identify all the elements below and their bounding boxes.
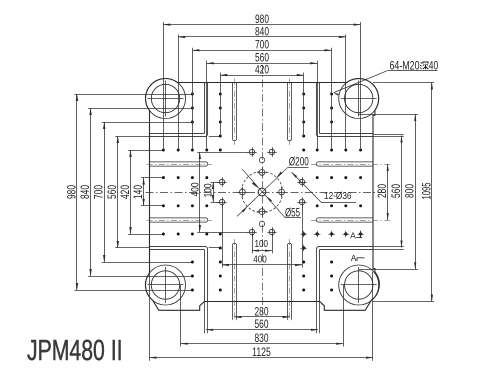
locating hole with cross mark (222,202): [217, 197, 226, 206]
dimension 100 horizontal centre: [252, 235, 273, 253]
callout 64-M20 depth 40: [333, 60, 438, 95]
svg-text:A: A: [350, 231, 356, 241]
svg-text:400: 400: [253, 254, 267, 266]
dimension 980 top: [163, 12, 360, 26]
locating hole with cross mark (272,232): [267, 227, 276, 236]
svg-text:700: 700: [92, 185, 106, 199]
T-slot left upper: [147, 162, 213, 166]
dimension 840 top: [178, 24, 346, 38]
svg-text:Ø200: Ø200: [289, 157, 309, 169]
mold area corner step bottom-right: [316, 246, 373, 301]
dimension 400 vertical centre: [189, 152, 248, 233]
dimension 1095 right: [419, 83, 433, 302]
M20 hole grid bottom-left quadrant: [162, 233, 222, 292]
dimension 800 right: [403, 114, 417, 269]
mold area corner step top-left: [150, 83, 208, 137]
T-slot right upper: [311, 162, 391, 166]
dimension 1125 bottom: [150, 345, 374, 359]
svg-text:560: 560: [389, 184, 403, 198]
tie-bar hole top-right: [339, 79, 379, 119]
mold area corner step top-right: [316, 83, 373, 137]
T-slot bottom right: [287, 239, 291, 321]
dimension 980 left: [64, 94, 78, 290]
dimension 560 top: [207, 51, 317, 65]
label diameter 55: [285, 208, 300, 220]
horizontal centerline: [146, 192, 388, 194]
bolt-circle hole (262,172.4): [257, 167, 267, 177]
M20 hole grid top-left quadrant: [162, 93, 222, 208]
svg-text:400: 400: [189, 183, 201, 197]
svg-text:100: 100: [203, 183, 215, 197]
svg-text:Ø55: Ø55: [285, 208, 300, 220]
svg-text:420: 420: [255, 63, 269, 77]
svg-text:JPM480 II: JPM480 II: [27, 335, 123, 367]
section mark A upper: [350, 231, 362, 241]
centre locating hole diameter 55: [258, 188, 266, 196]
tie-bar hole top-left: [146, 79, 186, 119]
platen plate outline with corner bosses: [145, 78, 379, 310]
leader line for diameter 55: [242, 169, 301, 217]
svg-text:420: 420: [118, 185, 132, 199]
dimension 560 left: [105, 136, 119, 248]
svg-text:1095: 1095: [419, 182, 433, 199]
leader line for diameter 200: [237, 168, 309, 217]
locating hole with cross mark (302,202): [297, 197, 306, 206]
label diameter 200: [289, 157, 309, 169]
T-slot right lower: [311, 218, 391, 222]
locating hole with cross mark (272,152): [267, 147, 276, 156]
T-slot top right: [287, 79, 291, 146]
svg-text:840: 840: [255, 24, 269, 38]
svg-text:140: 140: [131, 185, 145, 199]
svg-text:560: 560: [255, 317, 269, 331]
dimension 700 left: [92, 122, 106, 262]
T-slot left lower: [147, 218, 213, 222]
dimension 830 bottom: [181, 331, 343, 345]
bolt-circle hole (281.6,192): [277, 187, 287, 197]
svg-text:800: 800: [403, 184, 417, 198]
small hole above centre: [259, 157, 264, 162]
svg-text:40: 40: [429, 60, 438, 72]
svg-text:64-M20: 64-M20: [390, 60, 420, 72]
M20 hole grid top-right quadrant: [302, 93, 362, 208]
svg-text:840: 840: [78, 185, 92, 199]
svg-text:12-Ø36: 12-Ø36: [324, 191, 352, 202]
extension lines for bottom dimensions: [150, 272, 373, 361]
dimension 840 left: [78, 108, 92, 276]
dimension 140 left: [131, 178, 145, 206]
T-slot bottom left: [232, 239, 236, 321]
mold area corner step bottom-left: [150, 246, 208, 301]
tie-bar hole bottom-left: [146, 265, 186, 305]
extension lines for top dimensions: [164, 22, 361, 150]
M20 hole grid bottom-right quadrant (holes with centre marks): [300, 231, 364, 292]
T-slot top left: [232, 79, 236, 146]
dimension 560 bottom: [206, 317, 318, 331]
bolt-circle hole (262,211.6): [257, 207, 267, 217]
dimension 700 top: [192, 38, 331, 52]
leader line for 12 holes diameter 36: [291, 172, 356, 203]
dimension 420 top: [220, 63, 303, 77]
tie-bar hole bottom-right: [339, 265, 379, 305]
extension lines for left dimensions: [75, 95, 220, 291]
svg-text:980: 980: [64, 185, 78, 199]
label 12 holes diameter 36: [324, 191, 352, 202]
locating hole with cross mark (302,182): [297, 177, 306, 186]
svg-text:280: 280: [375, 184, 389, 198]
dimension 280 bottom: [235, 304, 290, 318]
svg-text:1125: 1125: [252, 345, 271, 359]
svg-text:100: 100: [255, 238, 269, 250]
locating hole with cross mark (252,232): [247, 227, 256, 236]
locating hole with cross mark (222,182): [217, 177, 226, 186]
svg-text:700: 700: [255, 38, 269, 52]
dimension 420 left: [118, 150, 132, 234]
svg-text:A: A: [351, 253, 357, 263]
extension lines for right dimensions: [359, 83, 435, 302]
dimension 100 vertical centre: [203, 182, 219, 203]
bolt-circle hole (242.4,192): [237, 187, 247, 197]
dimension 280 right: [375, 164, 389, 220]
bolt circle diameter 200 (dashed): [241, 171, 282, 212]
section mark A lower: [351, 253, 365, 263]
svg-text:830: 830: [255, 331, 269, 345]
dimension 560 right: [389, 136, 403, 248]
small hole below centre: [259, 221, 264, 226]
dimension 400 horizontal centre: [222, 205, 303, 268]
locating hole with cross mark (252,152): [247, 147, 256, 156]
vertical centerline: [262, 65, 264, 314]
model name JPM480 II: [27, 335, 123, 367]
